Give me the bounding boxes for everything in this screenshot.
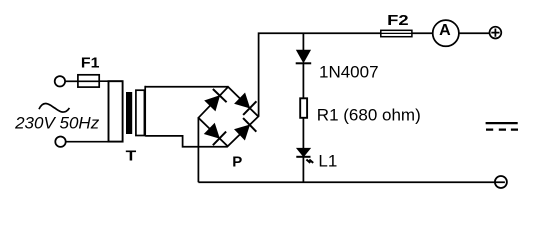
svg-text:A: A — [439, 22, 451, 39]
svg-text:F2: F2 — [387, 12, 409, 29]
svg-text:F1: F1 — [81, 55, 100, 72]
svg-text:T: T — [126, 147, 137, 164]
svg-text:R1 (680 ohm): R1 (680 ohm) — [317, 106, 421, 125]
svg-text:P: P — [232, 153, 242, 170]
svg-text:230V 50Hz: 230V 50Hz — [14, 114, 100, 133]
svg-text:L1: L1 — [318, 152, 337, 171]
svg-text:1N4007: 1N4007 — [319, 63, 379, 82]
